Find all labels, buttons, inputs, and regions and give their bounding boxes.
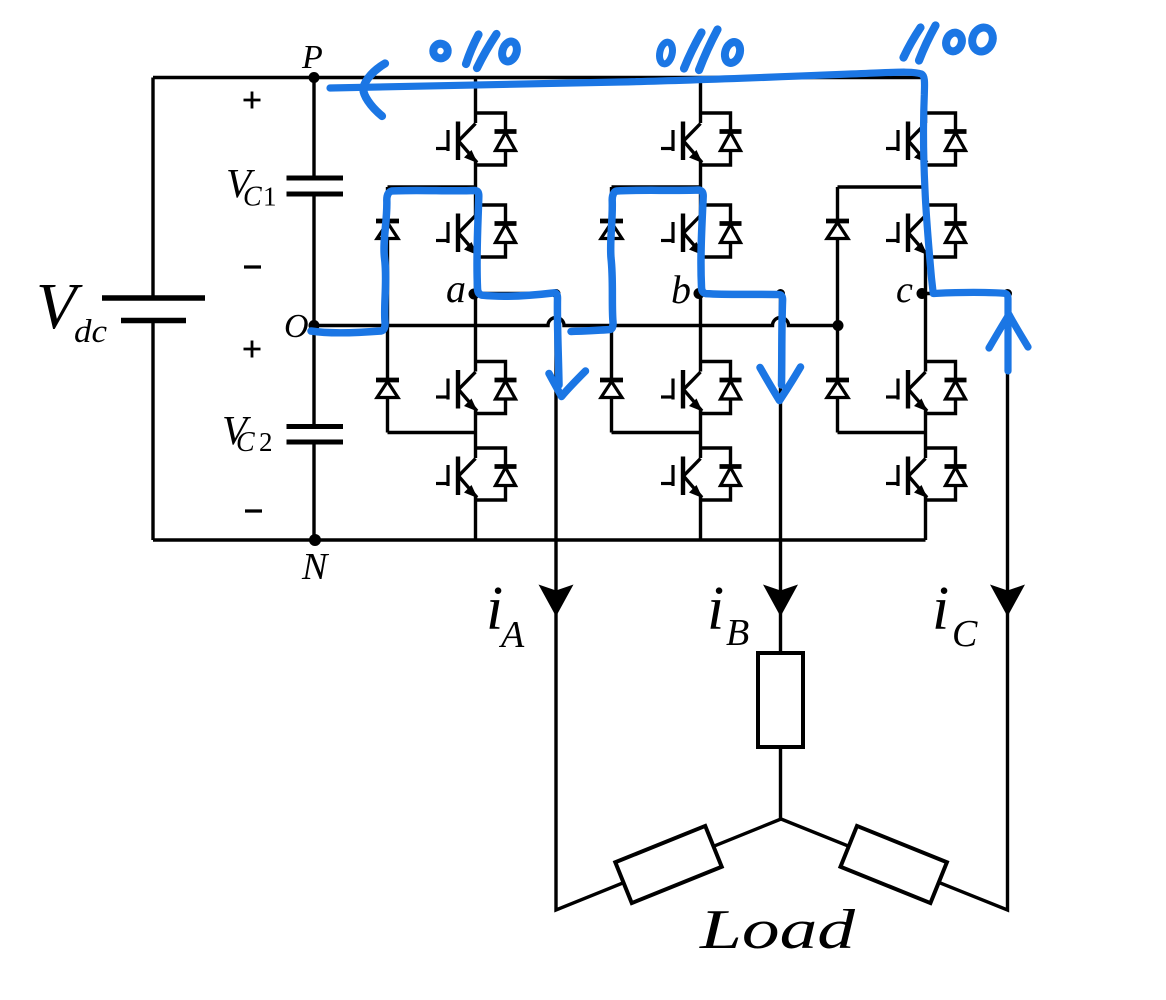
svg-text:b: b (671, 267, 691, 312)
svg-text:i: i (932, 575, 949, 643)
svg-text:O: O (284, 308, 309, 345)
svg-text:B: B (726, 612, 749, 654)
svg-text:C: C (236, 427, 255, 458)
svg-text:a: a (446, 266, 466, 311)
svg-text:C: C (952, 613, 978, 655)
svg-text:N: N (301, 546, 330, 588)
svg-text:C: C (243, 182, 262, 213)
svg-text:1: 1 (263, 182, 277, 212)
svg-text:i: i (707, 575, 724, 643)
svg-text:dc: dc (74, 314, 107, 350)
svg-text:Load: Load (699, 899, 857, 961)
svg-text:A: A (498, 614, 525, 656)
svg-text:2: 2 (259, 427, 273, 457)
svg-text:c: c (896, 269, 913, 311)
svg-text:P: P (301, 39, 323, 76)
